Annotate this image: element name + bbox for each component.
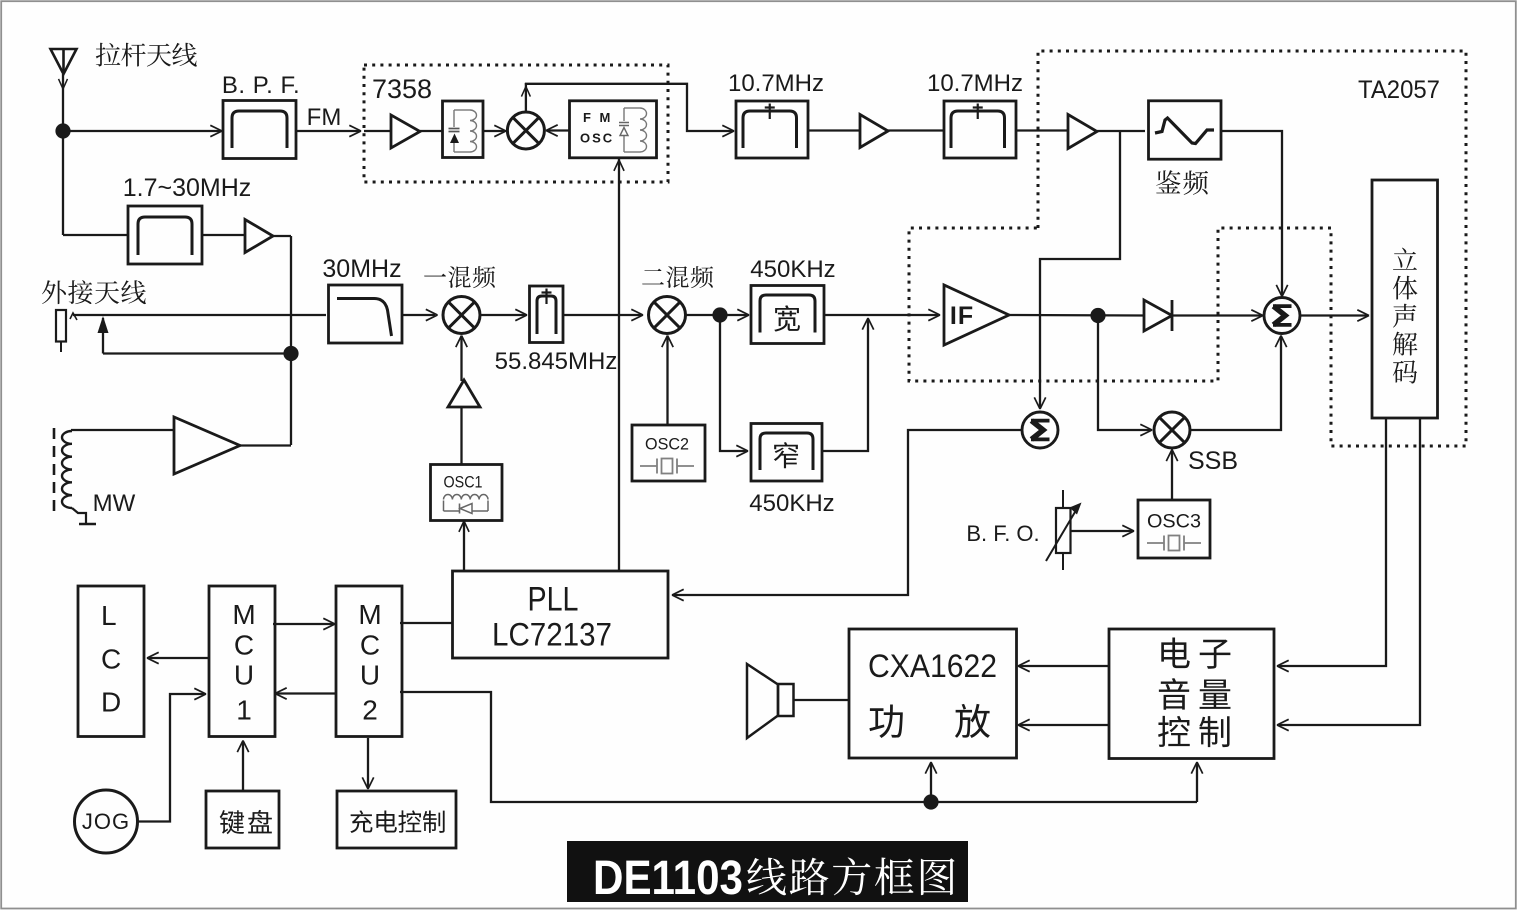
svg-text:30MHz: 30MHz [322, 255, 401, 283]
svg-text:D: D [101, 687, 121, 718]
svg-text:TA2057: TA2057 [1358, 76, 1440, 104]
svg-text:OSC3: OSC3 [1147, 512, 1201, 533]
svg-text:U: U [234, 660, 254, 691]
svg-text:B. F. O.: B. F. O. [966, 521, 1039, 546]
svg-text:10.7MHz: 10.7MHz [728, 70, 824, 97]
svg-text:10.7MHz: 10.7MHz [927, 70, 1023, 97]
svg-text:C: C [101, 644, 121, 675]
svg-text:DE1103: DE1103 [593, 852, 743, 905]
svg-text:OSC1: OSC1 [444, 473, 483, 492]
svg-text:B. P. F.: B. P. F. [222, 72, 300, 99]
svg-text:7358: 7358 [372, 74, 432, 104]
svg-text:LC72137: LC72137 [492, 617, 612, 653]
svg-text:2: 2 [362, 695, 378, 726]
svg-text:SSB: SSB [1188, 447, 1238, 475]
svg-text:1.7~30MHz: 1.7~30MHz [123, 174, 252, 202]
svg-text:OSC: OSC [580, 131, 614, 146]
svg-text:1: 1 [236, 695, 252, 726]
svg-text:C: C [360, 630, 380, 661]
svg-text:C: C [234, 630, 254, 661]
svg-text:PLL: PLL [528, 581, 579, 619]
svg-text:450KHz: 450KHz [750, 256, 835, 283]
svg-text:F M: F M [583, 110, 613, 125]
svg-text:U: U [360, 660, 380, 691]
svg-text:FM: FM [307, 104, 342, 131]
svg-text:MW: MW [93, 490, 136, 517]
svg-text:CXA1622: CXA1622 [868, 648, 997, 684]
svg-text:55.845MHz: 55.845MHz [495, 348, 618, 375]
svg-text:L: L [101, 600, 117, 631]
svg-text:JOG: JOG [82, 809, 130, 834]
svg-text:M: M [358, 599, 381, 630]
svg-text:IF: IF [950, 302, 974, 330]
svg-text:OSC2: OSC2 [645, 436, 689, 454]
svg-text:M: M [232, 599, 255, 630]
svg-text:450KHz: 450KHz [749, 490, 834, 517]
